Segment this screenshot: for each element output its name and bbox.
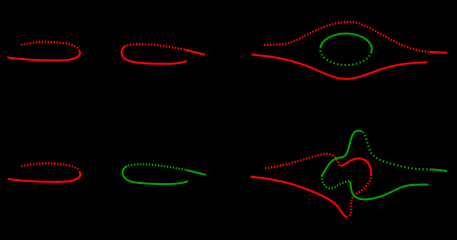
airfoil TM upper surface (dotted)	[127, 44, 185, 50]
BR red central hump (solid)	[341, 158, 372, 176]
TR outer lower boundary (solid)	[252, 55, 426, 79]
BR green loop bottom (dotted)	[322, 177, 350, 189]
airfoil BL upper surface (dotted)	[21, 163, 79, 171]
airfoil BM trailing tail (solid)	[187, 170, 206, 175]
BR green right flank and asymptote (dotted)	[363, 132, 429, 170]
TR outer upper boundary (dotted)	[264, 22, 429, 52]
BR red right lobe descending (dotted)	[348, 178, 371, 218]
TR inner hole bottom (dotted ellipse arc)	[320, 48, 371, 65]
airfoil TM leading edge and lower surface (solid)	[122, 46, 187, 64]
airfoil TM trailing tail (solid)	[186, 50, 205, 55]
airfoil TL upper surface (dotted)	[21, 42, 79, 50]
TR inner hole top (solid ellipse arc)	[320, 34, 371, 52]
BR green lower branch (solid)	[350, 181, 428, 199]
panel bottom-middle: optimized airfoil (green)	[123, 164, 206, 184]
airfoil BM leading edge and lower surface (solid)	[123, 166, 188, 184]
panel top-middle: optimized airfoil (red)	[122, 44, 205, 64]
BR red upper-left branch (dotted)	[265, 154, 339, 168]
panel bottom-right: merged red/green level-set contours	[251, 154, 372, 218]
airfoil BM upper surface (dotted)	[128, 164, 186, 170]
panel bottom-left: initial airfoil (red)	[8, 163, 81, 182]
panel top-right: shape with inner hole (red outline, green circle)	[252, 22, 449, 79]
panel top-left: initial airfoil (red)	[7, 42, 80, 61]
BR red lower-left branch (solid)	[251, 177, 348, 218]
BR green right end (solid)	[430, 169, 448, 171]
TR upper boundary right tail (solid, ends with arrow)	[430, 51, 447, 54]
BR green rising branch and apex (solid)	[322, 131, 363, 177]
TR lower tail arrowhead	[425, 61, 428, 63]
airfoil TL lower surface and cap (solid)	[7, 50, 80, 60]
airfoil BL lower surface and cap (solid)	[8, 172, 81, 182]
TR upper tail arrowhead	[445, 52, 448, 55]
